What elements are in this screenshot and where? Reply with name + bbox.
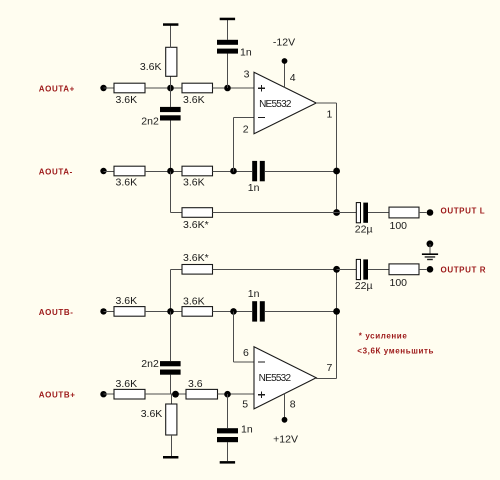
svg-text:3.6K: 3.6K [183, 295, 205, 307]
svg-text:6: 6 [243, 347, 249, 359]
C2 value label [141, 115, 159, 127]
node AOUTB- net label [39, 308, 74, 317]
capacitor C7 1n [217, 428, 238, 442]
junction node H (pin 5) [224, 391, 231, 398]
terminal bar [220, 18, 235, 21]
wire [170, 375, 172, 395]
terminal bar [163, 23, 178, 26]
wire [227, 394, 229, 428]
terminal OUTPUT R [427, 266, 434, 273]
wire [145, 310, 182, 312]
resistor R11 3.6K [114, 389, 145, 399]
R4 value label [116, 176, 138, 188]
resistor R6 3.6K* feedback [182, 208, 213, 218]
resistor R1 3.6K [114, 83, 145, 93]
svg-text:1: 1 [327, 108, 333, 120]
U1A part label [259, 99, 292, 110]
wire [234, 361, 254, 363]
wire [170, 26, 172, 48]
terminal AOUTA- [100, 168, 106, 174]
svg-text:OUTPUT L: OUTPUT L [441, 206, 486, 215]
svg-text:3.6K: 3.6K [183, 94, 205, 106]
R7 value label [390, 220, 408, 232]
svg-text:AOUTA+: AOUTA+ [39, 84, 75, 93]
resistor R7 100 [389, 207, 419, 218]
svg-text:3: 3 [244, 69, 250, 81]
note: gain annotation line 2 [357, 347, 434, 356]
R11 value label [116, 378, 138, 390]
-12V label [273, 36, 295, 48]
pin 1 label [327, 108, 333, 120]
wire [336, 103, 338, 213]
capacitor C2 2n2 [160, 107, 181, 121]
wire pin 8 [284, 394, 286, 420]
C8 value label [355, 280, 373, 292]
wire [265, 310, 337, 312]
pin 8 label [290, 398, 296, 410]
wire [337, 212, 357, 214]
resistor R12 3.6 [186, 389, 218, 399]
resistor R13 3.6K vertical [166, 404, 177, 435]
svg-text:100: 100 [390, 277, 408, 289]
capacitor C8 22u electrolytic [356, 259, 368, 279]
wire [171, 435, 173, 456]
resistor R9 3.6K [182, 307, 213, 317]
svg-text:AOUTB-: AOUTB- [39, 308, 74, 317]
terminal bar [163, 456, 178, 459]
node AOUTB+ net label [39, 391, 76, 400]
resistor R3 3.6K [182, 83, 213, 93]
wire [170, 172, 172, 213]
capacitor C1 1n [217, 40, 238, 54]
svg-text:3.6K: 3.6K [116, 378, 138, 390]
wire [227, 54, 229, 88]
resistor R2 3.6K vertical [166, 47, 177, 76]
R9 value label [183, 295, 205, 307]
junction node C [167, 168, 174, 175]
U1B plus input mark [258, 391, 265, 398]
wire [234, 117, 254, 119]
wire [170, 76, 172, 88]
svg-text:2n2: 2n2 [141, 358, 159, 370]
wire [218, 393, 254, 395]
U1B minus input mark [258, 361, 265, 363]
R2 value label [140, 61, 162, 73]
junction [333, 266, 340, 273]
wire pin 1 output [316, 102, 336, 104]
C7 value label [241, 423, 253, 435]
wire [233, 311, 235, 362]
junction node G [172, 391, 179, 398]
svg-text:NE5532: NE5532 [259, 99, 292, 110]
+12V label [273, 433, 298, 445]
svg-text:5: 5 [242, 398, 248, 410]
resistor R10 3.6K* feedback [182, 265, 213, 275]
U1B part label [259, 373, 292, 384]
svg-text:<3,6К уменьшить: <3,6К уменьшить [357, 347, 434, 356]
svg-text:3.6: 3.6 [188, 378, 203, 390]
R8 value label [116, 295, 138, 307]
svg-text:3.6K*: 3.6K* [183, 252, 209, 264]
junction [333, 308, 340, 315]
svg-text:* усиление: * усиление [359, 331, 408, 340]
wire [368, 212, 389, 214]
C6 value label [141, 358, 159, 370]
C4 value label [355, 223, 373, 235]
wire [170, 269, 172, 311]
svg-text:3.6K: 3.6K [116, 94, 138, 106]
terminal -12V [282, 58, 288, 64]
svg-text:AOUTB+: AOUTB+ [39, 391, 76, 400]
node OUTPUT R net label [441, 265, 487, 274]
note: gain annotation line 1 [359, 331, 408, 340]
C5 value label [248, 288, 260, 300]
wire [145, 171, 182, 173]
R14 value label [390, 277, 408, 289]
svg-text:AOUTA-: AOUTA- [39, 167, 73, 176]
wire [170, 121, 172, 172]
svg-text:3.6K*: 3.6K* [183, 219, 209, 231]
svg-text:3.6K: 3.6K [140, 61, 162, 73]
wire [213, 268, 337, 270]
junction node A [167, 85, 174, 92]
pin 5 label [242, 398, 248, 410]
svg-text:1n: 1n [240, 46, 252, 58]
svg-text:7: 7 [327, 362, 333, 374]
svg-text:22µ: 22µ [355, 280, 373, 292]
wire [227, 20, 229, 40]
svg-text:OUTPUT R: OUTPUT R [441, 265, 487, 274]
ground [422, 253, 438, 260]
R6 value label [183, 219, 209, 231]
pin 3 label [244, 69, 250, 81]
wire [170, 311, 172, 361]
wire [233, 118, 235, 172]
wire [104, 171, 115, 173]
svg-text:3.6K: 3.6K [141, 408, 163, 420]
pin 7 label [327, 362, 333, 374]
terminal +12V [282, 417, 288, 423]
node AOUTA- net label [39, 167, 73, 176]
resistor R14 100 [389, 264, 419, 275]
resistor R5 3.6K [182, 166, 213, 176]
R5 value label [183, 177, 205, 189]
C3 value label [248, 182, 260, 194]
wire [171, 394, 173, 404]
wire [104, 87, 115, 89]
node AOUTA+ net label [39, 84, 75, 93]
svg-text:1n: 1n [248, 182, 260, 194]
wire [419, 268, 427, 270]
R1 value label [116, 94, 138, 106]
R3 value label [183, 94, 205, 106]
terminal bar [220, 461, 235, 464]
wire [104, 393, 115, 395]
svg-text:1n: 1n [248, 288, 260, 300]
R13 value label [141, 408, 163, 420]
wire [170, 88, 172, 107]
junction node E [167, 308, 174, 315]
R12 value label [188, 378, 203, 390]
junction [333, 168, 340, 175]
resistor R4 3.6K [114, 166, 145, 176]
terminal AOUTB+ [100, 391, 106, 397]
wire [145, 87, 182, 89]
svg-text:22µ: 22µ [355, 223, 373, 235]
svg-text:3.6K: 3.6K [116, 176, 138, 188]
wire [213, 310, 253, 312]
pin 6 label [243, 347, 249, 359]
svg-text:4: 4 [290, 72, 296, 84]
pin 4 label [290, 72, 296, 84]
wire [337, 268, 357, 270]
U1A minus input mark [258, 117, 265, 119]
U1A plus input mark [258, 85, 265, 92]
wire [368, 268, 389, 270]
resistor R8 3.6K [114, 307, 145, 317]
terminal OUTPUT L [427, 209, 434, 216]
wire [145, 393, 186, 395]
wire [419, 212, 427, 214]
capacitor C5 1n feedback [252, 301, 265, 321]
svg-text:-12V: -12V [273, 36, 295, 48]
wire [104, 310, 115, 312]
terminal ground dot [427, 240, 434, 247]
op-amp U1B NE5532 [254, 347, 316, 409]
R10 value label [183, 252, 209, 264]
node OUTPUT L net label [441, 206, 486, 215]
wire [171, 268, 183, 270]
junction node F (pin 6) [230, 308, 237, 315]
svg-text:1n: 1n [241, 423, 253, 435]
wire [171, 212, 183, 214]
terminal AOUTA+ [100, 85, 106, 91]
svg-text:2: 2 [243, 123, 249, 135]
wire [429, 244, 431, 254]
junction [333, 209, 340, 216]
svg-text:NE5532: NE5532 [259, 373, 292, 384]
terminal AOUTB- [100, 308, 106, 314]
C1 value label [240, 46, 252, 58]
wire [336, 269, 338, 378]
svg-text:3.6K: 3.6K [116, 295, 138, 307]
capacitor C6 2n2 [160, 361, 181, 375]
capacitor C3 1n feedback [252, 161, 265, 181]
svg-text:2n2: 2n2 [141, 115, 159, 127]
wire [265, 171, 337, 173]
wire [213, 87, 254, 89]
wire pin 4 [284, 61, 286, 88]
junction node B (pin 3) [224, 85, 231, 92]
wire [227, 442, 229, 461]
svg-text:8: 8 [290, 398, 296, 410]
junction node D (pin 2) [230, 168, 237, 175]
svg-text:3.6K: 3.6K [183, 177, 205, 189]
op-amp U1A NE5532 [254, 72, 316, 134]
svg-text:+12V: +12V [273, 433, 298, 445]
wire pin 7 output [316, 377, 336, 379]
capacitor C4 22u electrolytic [356, 203, 368, 223]
wire [213, 171, 253, 173]
wire [213, 212, 337, 214]
svg-text:100: 100 [390, 220, 408, 232]
pin 2 label [243, 123, 249, 135]
